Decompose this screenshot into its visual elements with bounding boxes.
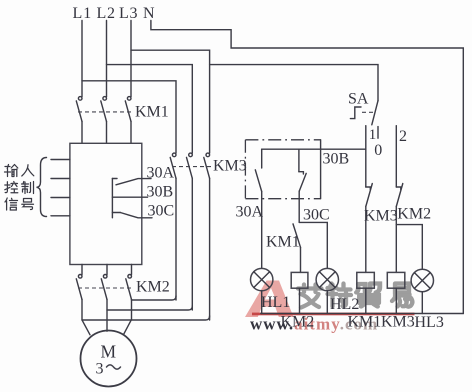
- wire L2 branch to KM3 bypass: [107, 65, 193, 154]
- SA position 0 bar: [377, 127, 379, 139]
- KM1 linkage dashed: [78, 111, 134, 113]
- contactor KM1 pole 3: [125, 97, 131, 144]
- svg-text:KM2: KM2: [397, 206, 431, 223]
- watermark char 易: [392, 284, 412, 307]
- contactor KM1 pole 2: [101, 97, 107, 144]
- svg-text:M: M: [101, 342, 117, 362]
- contact 30C in box: [299, 149, 306, 191]
- svg-text:KM1: KM1: [135, 104, 169, 121]
- coil KM3: [387, 272, 405, 313]
- contact KM1 aux: [293, 224, 301, 247]
- svg-text:N: N: [143, 5, 155, 22]
- KM2 linkage dashed: [78, 287, 134, 289]
- char 号: [22, 199, 34, 210]
- svg-text:KM1: KM1: [266, 234, 300, 251]
- contactor KM2 pole 2: [101, 265, 107, 300]
- wire L2 vertical to KM1: [106, 21, 108, 97]
- svg-text:KM1: KM1: [348, 314, 382, 331]
- contact KM2 aux: [396, 184, 403, 207]
- input signal tick 3: [51, 197, 70, 199]
- wire L3 branch to KM3 bypass: [131, 50, 210, 153]
- motor lead right: [124, 300, 132, 335]
- contactor KM1 pole 1: [76, 97, 82, 144]
- wire 30C down: [298, 191, 300, 222]
- input signal tick 4: [51, 215, 70, 217]
- svg-text:SA: SA: [348, 91, 369, 108]
- wire pos2 down to KM3 coil: [395, 207, 397, 273]
- char 信: [5, 198, 18, 210]
- svg-text:HL2: HL2: [330, 296, 359, 313]
- contactor KM2 pole 3: [126, 265, 132, 300]
- contact KM3 aux: [366, 184, 373, 207]
- lamp HL1: [251, 268, 273, 313]
- bottom rail to N: [261, 313, 464, 315]
- dashed box KM3 outputs: [245, 140, 320, 199]
- lamp HL3: [411, 269, 433, 313]
- wire to HL2: [299, 222, 327, 268]
- lamp HL2: [316, 268, 338, 313]
- bypass join wire 3: [82, 316, 210, 320]
- starter internal output symbol: [112, 179, 152, 218]
- wire SA pos2 down: [395, 126, 397, 187]
- wire to KM1 coil: [365, 207, 367, 273]
- bypass join wire 1: [132, 296, 177, 300]
- svg-text:L2: L2: [97, 5, 116, 22]
- svg-text:1: 1: [369, 127, 377, 143]
- svg-text:2: 2: [399, 128, 407, 145]
- SA linkage dashed: [362, 111, 374, 113]
- wire branch to HL3: [396, 225, 422, 270]
- coil KM2: [291, 272, 308, 313]
- label input-control-signal (hand-drawn CJK): [5, 165, 34, 211]
- wire N to right rail: [151, 21, 463, 314]
- input signal tick 2: [51, 178, 70, 180]
- coil KM1: [357, 272, 375, 313]
- motor M: [81, 331, 137, 387]
- wire to KM2 coil: [300, 247, 302, 272]
- char 控: [5, 182, 18, 193]
- watermark logo A: [245, 281, 294, 318]
- motor lead left: [82, 300, 90, 335]
- svg-text:KM3: KM3: [364, 208, 398, 225]
- svg-text:KM3: KM3: [381, 314, 415, 331]
- wire L1 vertical to KM1: [81, 21, 83, 97]
- contactor KM2 pole 1: [76, 265, 82, 300]
- char 制: [22, 182, 34, 194]
- contactor KM3 pole 2: [187, 153, 193, 310]
- svg-text:KM3: KM3: [213, 158, 247, 175]
- input signal tick 1: [51, 159, 70, 161]
- wire 30B common: [262, 148, 366, 150]
- svg-text:30B: 30B: [147, 184, 174, 201]
- char 输: [5, 165, 18, 177]
- svg-text:HL1: HL1: [261, 294, 290, 311]
- wire SA feed from L3: [210, 65, 378, 101]
- soft starter box U1: [70, 143, 142, 264]
- contact 30A in box: [255, 149, 261, 191]
- svg-text:30A: 30A: [147, 165, 175, 182]
- svg-text:L1: L1: [73, 5, 93, 22]
- svg-text:30A: 30A: [236, 204, 264, 221]
- svg-text:HL3: HL3: [415, 314, 444, 331]
- svg-text:L3: L3: [119, 5, 138, 22]
- char 入: [22, 165, 34, 176]
- wire 30A to HL1: [261, 192, 263, 269]
- wire SA pos1 down: [365, 126, 367, 187]
- bypass join wire 2: [107, 306, 192, 310]
- svg-text:0: 0: [374, 142, 382, 159]
- watermark char 特: [328, 284, 352, 307]
- SA manual actuator: [350, 107, 361, 119]
- svg-text:30B: 30B: [323, 151, 350, 168]
- contactor KM3 pole 1: [170, 153, 176, 300]
- KM3 linkage dashed: [172, 166, 211, 168]
- svg-text:3: 3: [96, 361, 104, 378]
- wire L3 vertical to KM1: [130, 21, 132, 97]
- SA blade: [372, 101, 378, 125]
- watermark char 贸: [356, 284, 379, 307]
- watermark red bar: [252, 313, 415, 316]
- svg-text:KM2: KM2: [281, 314, 315, 331]
- svg-text:30C: 30C: [303, 207, 330, 224]
- brace for input signals: [37, 158, 47, 217]
- motor lead middle: [106, 300, 108, 332]
- wire L1 branch to KM3 bypass: [82, 81, 176, 153]
- watermark char 艾: [298, 285, 322, 308]
- contactor KM3 pole 3: [204, 153, 210, 320]
- svg-text:KM2: KM2: [136, 279, 170, 296]
- svg-text:30C: 30C: [148, 203, 175, 220]
